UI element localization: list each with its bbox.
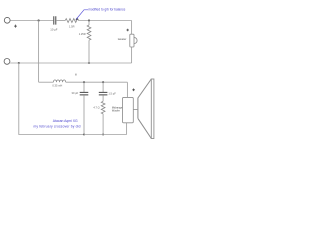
svg-text:tweeter: tweeter — [118, 37, 127, 41]
speaker LS2 connector — [133, 108, 137, 110]
svg-text:4.7 Ω: 4.7 Ω — [93, 106, 99, 110]
stray tick mark — [75, 74, 76, 76]
wire C2 bottom to bottom rail — [83, 95, 85, 134]
svg-text:Atacan Aqmi XG: Atacan Aqmi XG — [53, 119, 78, 123]
plus polarity mark at + input — [14, 25, 17, 28]
wire node rail to C2 — [83, 82, 85, 92]
wire tweeter bottom to minus rail — [131, 47, 133, 63]
wire tweeter top drop — [131, 21, 133, 35]
junction dot C3 on node rail — [102, 81, 104, 83]
svg-text:0.35 mH: 0.35 mH — [52, 83, 62, 87]
wire R2 bottom to minus rail — [88, 40, 90, 63]
plus polarity mark tweeter — [126, 29, 129, 32]
wire node rail to woofer corner — [66, 81, 128, 83]
wire top rail right segment — [79, 20, 132, 22]
resistor R1 series — [65, 19, 78, 23]
junction dot R2 on minus rail — [88, 62, 90, 64]
wire bottom rail right segment — [84, 134, 127, 136]
svg-text:1.5 µF: 1.5 µF — [108, 91, 116, 95]
junction dot C2 on bottom rail — [83, 134, 85, 136]
wire top rail left segment — [10, 20, 53, 22]
speaker LS2 woofer body — [123, 97, 134, 122]
svg-text:Woofer: Woofer — [112, 109, 120, 112]
svg-text:1.25R: 1.25R — [79, 32, 86, 36]
junction dot return drop on minus rail — [18, 62, 20, 64]
wire C3 to R3 — [102, 95, 104, 101]
speaker LS1 tweeter body — [130, 34, 134, 47]
plus polarity mark woofer — [132, 89, 135, 92]
wire woofer - stub — [126, 123, 128, 135]
node B junction dot (tweeter node) — [88, 19, 90, 21]
wire node rail to C3 — [102, 82, 104, 92]
svg-text:1.5R: 1.5R — [69, 25, 75, 29]
wire woofer + drop — [126, 82, 128, 97]
svg-text:30 µF: 30 µF — [72, 91, 79, 95]
capacitor C1 series — [54, 16, 56, 24]
node A junction dot on top rail — [38, 19, 40, 21]
wire from feed corner to inductor — [39, 81, 54, 83]
svg-text:my february crossover by did: my february crossover by did — [34, 124, 81, 128]
svg-text:modified to g/b for balance: modified to g/b for balance — [88, 7, 125, 11]
speaker LS2 cone mouth — [151, 79, 154, 139]
junction dot R3 on bottom rail — [102, 134, 104, 136]
speaker LS2 woofer cone — [138, 79, 151, 139]
capacitor C3 shunt — [99, 92, 108, 95]
wire between C1 and R1 — [56, 20, 65, 22]
resistor R3 shunt — [101, 101, 105, 114]
junction dot C2 on node rail — [83, 81, 85, 83]
wire from node B down to R2 — [88, 21, 90, 26]
wire + feed down column — [38, 21, 40, 83]
terminal J2 (- input) — [4, 59, 10, 65]
inductor L1 — [53, 80, 65, 82]
svg-text:10 µF: 10 µF — [50, 28, 57, 32]
wire R3 bottom to bottom rail — [102, 114, 104, 135]
speaker LS1 tweeter dome — [134, 37, 137, 43]
wire return drop to bottom rail — [19, 63, 84, 135]
annotation leader line (blue) — [76, 10, 88, 19]
capacitor C2 shunt — [80, 92, 89, 95]
annotation arrowhead — [75, 18, 78, 21]
resistor R2 shunt — [87, 25, 91, 40]
wire minus rail — [10, 62, 131, 64]
terminal J1 (+ input) — [4, 17, 10, 23]
